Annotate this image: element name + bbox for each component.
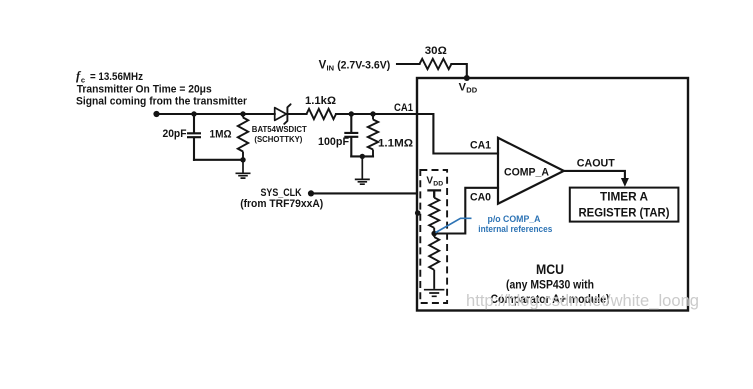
resistor R4 30ohm bbox=[420, 59, 452, 69]
wire: input to diode anode bbox=[157, 113, 275, 115]
svg-text:MCU: MCU bbox=[536, 262, 564, 277]
svg-text:BAT54WSDICT: BAT54WSDICT bbox=[252, 124, 308, 134]
junction dot ground stem bbox=[360, 154, 365, 159]
svg-text:1MΩ: 1MΩ bbox=[210, 129, 232, 141]
label SYS_CLK bbox=[261, 187, 302, 199]
label 1.1Mohm bbox=[378, 138, 413, 150]
node SYS_CLK input bbox=[308, 190, 314, 196]
svg-text:Transmitter On Time = 20μs: Transmitter On Time = 20μs bbox=[77, 83, 212, 95]
label COMP_A bbox=[504, 166, 549, 178]
svg-text:COMP_A: COMP_A bbox=[504, 166, 549, 178]
svg-text:CA1: CA1 bbox=[470, 140, 491, 152]
svg-text:http://blog.csdn.net/white_loo: http://blog.csdn.net/white_loong bbox=[466, 291, 699, 310]
wire: diode cathode to R2 bbox=[287, 113, 306, 115]
label MCU bbox=[536, 262, 564, 277]
label VIN (2.7V-3.6V) bbox=[319, 60, 391, 73]
svg-text:(from TRF79xxA): (from TRF79xxA) bbox=[240, 198, 323, 210]
svg-text:30Ω: 30Ω bbox=[425, 45, 447, 57]
resistor R1 1Mohm bbox=[238, 114, 248, 160]
junction dot C2 top bbox=[349, 111, 354, 116]
label 100pF bbox=[318, 136, 349, 148]
MCU box outline bbox=[417, 78, 688, 311]
wire: C2 bottom to R3 bottom bbox=[351, 155, 373, 157]
svg-text:20pF: 20pF bbox=[163, 128, 187, 140]
svg-text:DD: DD bbox=[433, 181, 443, 188]
label BAT54WSDICT bbox=[252, 124, 308, 134]
label VDD (top) bbox=[459, 82, 478, 95]
label 20pF bbox=[163, 128, 187, 140]
label 1.1kohm bbox=[305, 95, 336, 107]
resistor R3 1.1Mohm bbox=[368, 114, 378, 156]
svg-text:p/o COMP_A: p/o COMP_A bbox=[488, 214, 541, 224]
label Transmitter On Time = 20us bbox=[77, 83, 212, 95]
svg-text:IN: IN bbox=[327, 64, 335, 73]
annotation: p/o COMP_A internal references pointer bbox=[436, 218, 472, 232]
junction dot C1 top bbox=[191, 111, 196, 116]
label (SCHOTTKY) bbox=[254, 134, 302, 144]
label (any MSP430 with bbox=[506, 280, 594, 292]
label CAOUT bbox=[577, 157, 615, 169]
svg-text:1.1kΩ: 1.1kΩ bbox=[305, 95, 336, 107]
junction dot R1 top bbox=[240, 111, 245, 116]
wire: CA0 net from divider to comparator bbox=[434, 188, 498, 234]
label CA1 (net) bbox=[394, 102, 413, 114]
label VDD (divider) bbox=[426, 176, 443, 188]
svg-text:DD: DD bbox=[466, 86, 477, 95]
svg-text:(SCHOTTKY): (SCHOTTKY) bbox=[254, 134, 302, 144]
TIMER A REGISTER box bbox=[570, 188, 679, 222]
svg-text:TIMER A: TIMER A bbox=[600, 190, 648, 204]
label fc = 13.56MHz bbox=[76, 69, 143, 84]
wire: R4 to VDD node on MCU bbox=[451, 64, 466, 78]
dashed box: internal reference divider bbox=[420, 170, 447, 303]
junction dot R3 top bbox=[370, 111, 375, 116]
wire: SYS_CLK to MCU bbox=[311, 192, 417, 194]
svg-text:= 13.56MHz: = 13.56MHz bbox=[90, 71, 143, 83]
svg-text:CA0: CA0 bbox=[470, 191, 491, 203]
wire: C1 bottom to R1 bottom bbox=[194, 159, 243, 161]
capacitor C1 20pF bbox=[187, 114, 201, 160]
label REGISTER (TAR) bbox=[579, 206, 670, 220]
label 1Mohm bbox=[210, 129, 232, 141]
resistor R6 (divider bottom) bbox=[429, 234, 439, 289]
svg-text:V: V bbox=[319, 60, 327, 72]
ground G3 bbox=[424, 290, 445, 297]
wire: VIN to R4 bbox=[397, 63, 420, 65]
svg-text:1.1MΩ: 1.1MΩ bbox=[378, 138, 413, 150]
node: transmitter signal input bbox=[153, 111, 159, 117]
diode D1 BAT54WSDICT (schottky) bbox=[275, 104, 291, 124]
watermark bbox=[466, 291, 699, 310]
wire: CAOUT from comparator apex bbox=[564, 171, 625, 179]
label 30ohm bbox=[425, 45, 447, 57]
resistor R5 (divider top) bbox=[429, 198, 439, 234]
label CA0 (pin) bbox=[470, 191, 491, 203]
svg-text:REGISTER (TAR): REGISTER (TAR) bbox=[579, 206, 670, 220]
label Comparator A+ module) bbox=[491, 294, 610, 306]
svg-text:CAOUT: CAOUT bbox=[577, 157, 615, 169]
junction dot divider tap bbox=[431, 231, 437, 237]
label (from TRF79xxA) bbox=[240, 198, 323, 210]
ground G2 bbox=[355, 156, 370, 184]
svg-text:100pF: 100pF bbox=[318, 136, 349, 148]
junction dot on MCU edge bbox=[415, 210, 421, 216]
label internal references bbox=[478, 224, 552, 234]
svg-text:(2.7V-3.6V): (2.7V-3.6V) bbox=[337, 60, 390, 72]
label Signal coming from the transmitter bbox=[76, 96, 248, 108]
resistor R2 1.1kohm bbox=[307, 109, 337, 119]
junction dot R1 bottom bbox=[240, 157, 245, 162]
junction dot VDD bbox=[464, 75, 470, 81]
wire: CA1 net from R2 into MCU to comparator bbox=[336, 114, 498, 154]
capacitor C2 100pF bbox=[344, 114, 358, 156]
svg-text:CA1: CA1 bbox=[394, 102, 413, 114]
svg-text:internal references: internal references bbox=[478, 224, 552, 234]
op-amp U1 COMP_A bbox=[498, 138, 564, 204]
svg-text:Signal coming from the transmi: Signal coming from the transmitter bbox=[76, 96, 248, 108]
label TIMER A bbox=[600, 190, 648, 204]
label p/o COMP_A bbox=[488, 214, 541, 224]
VDD rail bar bbox=[427, 190, 441, 197]
arrow into TIMER A register bbox=[621, 178, 629, 187]
label CA1 (pin) bbox=[470, 140, 491, 152]
ground G1 bbox=[236, 160, 251, 178]
